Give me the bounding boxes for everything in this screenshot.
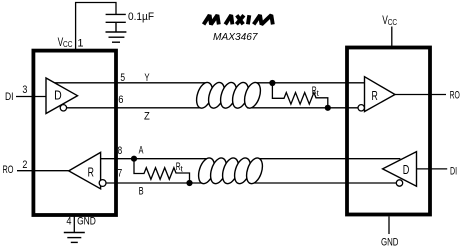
- resistor Rt (left termination, between A and B): [134, 159, 190, 183]
- wire Y (pin 5 to top twisted pair, left segment): [54, 82, 208, 84]
- ground (capacitor): [106, 32, 127, 42]
- ground (left IC pin 4): [64, 233, 85, 243]
- svg-text:DI: DI: [450, 166, 457, 178]
- svg-text:7: 7: [118, 167, 123, 179]
- receiver U1b (R triangle): [69, 152, 101, 188]
- svg-text:5: 5: [120, 72, 125, 84]
- bubble on right receiver input: [358, 105, 364, 111]
- svg-text:B: B: [139, 185, 144, 197]
- capacitor C1 0.1uF: [106, 14, 126, 32]
- wire Y continuation (top twisted pair to right receiver): [254, 82, 365, 84]
- Maxim logo: [204, 15, 273, 24]
- wire GND right stem: [388, 217, 390, 235]
- wire RO right output: [395, 94, 446, 96]
- wire Z (pin 6 to top twisted pair, left segment): [67, 107, 203, 109]
- driver U2b (D triangle): [383, 152, 417, 187]
- svg-text:R: R: [88, 165, 94, 179]
- svg-text:4: 4: [66, 216, 71, 228]
- IC U1 left MAX3467 body: [33, 51, 116, 215]
- driver U1a (D triangle): [46, 78, 78, 114]
- node junction A/Rt: [131, 156, 137, 162]
- svg-text:D: D: [403, 163, 410, 177]
- svg-text:DI: DI: [5, 91, 14, 103]
- bubble on receiver B input: [99, 180, 106, 187]
- svg-text:CC: CC: [63, 40, 73, 49]
- svg-text:Y: Y: [144, 72, 150, 84]
- wire A continuation (bottom twisted pair to right driver): [256, 158, 400, 160]
- node junction B/Rt: [186, 180, 192, 186]
- bubble on driver Z output: [60, 105, 66, 111]
- wire Z continuation (top twisted pair to right receiver bubble): [247, 107, 358, 109]
- wire Vcc right stem: [391, 27, 393, 48]
- svg-text:GND: GND: [381, 237, 399, 249]
- IC U2 right body: [347, 48, 430, 215]
- bubble on right driver output: [396, 180, 402, 186]
- svg-text:A: A: [139, 145, 144, 157]
- wire RO output from receiver pin 2: [17, 170, 69, 172]
- wire B continuation (bottom twisted pair to right driver bubble): [249, 182, 396, 184]
- svg-text:MAX3467: MAX3467: [213, 31, 259, 43]
- svg-text:8: 8: [118, 145, 123, 157]
- svg-text:3: 3: [22, 84, 27, 96]
- node junction Z/Rt: [325, 105, 331, 111]
- wire GND pin 4 stem: [73, 215, 75, 233]
- svg-text:2: 2: [22, 159, 27, 171]
- twisted pair cable (bottom, A/B): [196, 156, 266, 186]
- wire B (pin 7 to bottom twisted pair, left segment): [106, 182, 205, 184]
- twisted pair cable (top, Y/Z): [194, 80, 264, 110]
- svg-text:RO: RO: [3, 164, 14, 176]
- wire A (pin 8 to bottom twisted pair, left segment): [101, 158, 210, 160]
- wire Vcc pin 1 up and over to capacitor: [76, 3, 116, 51]
- wire DI input to driver pin 3: [16, 96, 46, 98]
- svg-text:GND: GND: [77, 216, 96, 228]
- node junction Y/Rt: [269, 80, 275, 86]
- svg-text:R: R: [372, 89, 378, 103]
- svg-text:6: 6: [118, 94, 123, 106]
- svg-text:Z: Z: [144, 111, 150, 123]
- svg-text:0.1µF: 0.1µF: [128, 11, 154, 23]
- svg-text:1: 1: [77, 37, 83, 49]
- resistor Rt (right termination, between Y and Z): [272, 83, 327, 108]
- svg-text:RO: RO: [450, 90, 461, 102]
- svg-text:D: D: [54, 89, 62, 103]
- wire DI right input: [417, 168, 448, 170]
- receiver U2a (R triangle): [365, 77, 396, 112]
- svg-text:CC: CC: [388, 18, 398, 27]
